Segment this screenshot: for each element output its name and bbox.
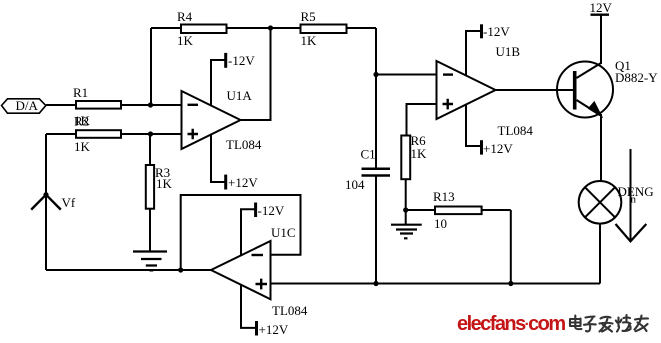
op-amp U1A [182, 91, 241, 149]
lamp DENG [579, 181, 622, 224]
ground under R6 [391, 225, 422, 239]
svg-text:R2: R2 [74, 114, 89, 129]
node U1B minus tap [373, 72, 378, 77]
wire bottom left to U1C output [46, 269, 211, 271]
wire U1C V- supply [241, 209, 256, 255]
svg-text:D882-Y: D882-Y [615, 70, 658, 85]
svg-text:D/A: D/A [16, 98, 39, 113]
node C1 bottom junction [373, 281, 378, 286]
resistor R13 [435, 207, 482, 215]
wire U1B V- supply [466, 31, 482, 76]
svg-text:-12V: -12V [483, 24, 510, 39]
op-amp U1C plus sign [256, 279, 268, 290]
svg-text:-12V: -12V [258, 203, 285, 218]
svg-text:Vf: Vf [62, 195, 76, 210]
wire U1B V+ supply [466, 105, 482, 146]
svg-text:R1: R1 [73, 85, 88, 100]
node R2 out junction [148, 131, 153, 136]
wire R13 to riser [482, 209, 511, 211]
wire U1B inverting input [376, 74, 437, 76]
svg-text:1K: 1K [301, 33, 318, 48]
input port D/A [2, 99, 46, 113]
svg-text:C1: C1 [361, 147, 376, 162]
svg-text:U1A: U1A [227, 88, 253, 103]
wire R4 to R5 [227, 27, 301, 29]
wire U1A V+ supply [211, 135, 226, 182]
wire R3 stem [149, 134, 151, 165]
ground under R3 [133, 252, 167, 271]
op-amp U1C minus sign [252, 254, 264, 256]
wire D/A to R1 [46, 104, 76, 106]
node Vf [43, 192, 48, 197]
wire C1 bottom to bottom bus [375, 176, 377, 284]
resistor R3 [146, 165, 154, 209]
transistor Q1 [557, 62, 613, 118]
wire bottom bus [271, 283, 601, 285]
op-amp U1B [437, 61, 496, 119]
svg-text:U1C: U1C [271, 225, 296, 240]
svg-text:R13: R13 [433, 189, 455, 204]
node R4-R5 junction [268, 25, 273, 30]
svg-text:1K: 1K [156, 176, 173, 191]
wire U1B output to Q1 base [496, 89, 574, 91]
current arrow [630, 149, 632, 240]
svg-text:-12V: -12V [228, 53, 255, 68]
op-amp U1B plus sign [443, 99, 454, 110]
wire Q1 collector to 12V [600, 15, 602, 64]
power 12V bar [591, 13, 610, 15]
svg-text:R4: R4 [177, 9, 193, 24]
node R6 ground junction [403, 207, 408, 212]
node U1C output junction [178, 267, 183, 272]
power tick U1C V- [254, 203, 257, 218]
wire R1 to U1A minus input [121, 104, 182, 106]
op-amp U1B minus sign [443, 73, 453, 75]
svg-text:R5: R5 [301, 9, 316, 24]
svg-text:+12V: +12V [228, 175, 258, 190]
wire R5 right to C1 riser corner [347, 27, 377, 29]
wire ground node to R13 [406, 209, 435, 211]
power tick U1A V+ [224, 175, 227, 190]
svg-text:104: 104 [345, 177, 365, 192]
op-amp U1A plus sign [188, 129, 199, 140]
resistor R2 [76, 130, 121, 138]
wire U1C V+ supply [241, 285, 257, 328]
capacitor C1 [362, 169, 391, 176]
wire Vf branch to R2 [46, 133, 76, 135]
wire R2 to U1A plus input [121, 133, 182, 135]
logo elecfans.com [457, 313, 565, 335]
Vf probe [31, 195, 61, 210]
wire left riser from top bus to R1 output node [150, 28, 152, 105]
wire top bus left segment [151, 27, 181, 29]
resistor R1 [76, 101, 121, 109]
op-amp U1C [211, 241, 271, 299]
wire R3 to ground [149, 209, 151, 252]
wire riser continues to C1 top plate [375, 75, 377, 169]
resistor R5 [301, 25, 347, 34]
wire U1C feedback loop [181, 195, 301, 270]
power tick U1A V- [224, 53, 227, 68]
power tick U1B V+ [480, 140, 483, 154]
svg-text:1K: 1K [411, 146, 428, 161]
svg-text:+12V: +12V [259, 322, 289, 337]
svg-text:U1B: U1B [496, 44, 521, 59]
node R1 out junction [148, 102, 153, 107]
svg-text:+12V: +12V [483, 141, 513, 156]
wire U1A output riser [241, 28, 271, 120]
svg-text:elecfans·com: elecfans·com [457, 313, 565, 335]
op-amp U1A minus sign [188, 104, 199, 106]
wire Q1 emitter to lamp [600, 114, 602, 182]
wire C1/R5 riser down to U1B minus tap [375, 28, 377, 75]
svg-text:12V: 12V [590, 0, 613, 15]
svg-text:TL084: TL084 [226, 137, 262, 152]
resistor R4 [181, 25, 227, 34]
node R13 bottom junction [508, 281, 513, 286]
svg-text:10: 10 [434, 216, 447, 231]
svg-text:TL084: TL084 [498, 123, 534, 138]
svg-text:TL084: TL084 [272, 303, 308, 318]
resistor R6 [401, 136, 410, 180]
wire U1A V- supply [211, 60, 226, 105]
wire R13 riser to bottom bus [510, 210, 512, 284]
svg-text:n: n [631, 194, 637, 206]
svg-text:1K: 1K [74, 139, 91, 154]
logo Chinese 电子发烧友 [570, 315, 648, 332]
svg-text:1K: 1K [177, 33, 194, 48]
wire lamp bottom riser [599, 223, 601, 283]
wire Vf feedback riser [45, 134, 47, 270]
power tick U1C V+ [255, 321, 258, 336]
wire U1B plus input [407, 104, 437, 136]
wire R6 bottom to ground node [405, 179, 407, 224]
power tick U1B V- [480, 24, 483, 38]
